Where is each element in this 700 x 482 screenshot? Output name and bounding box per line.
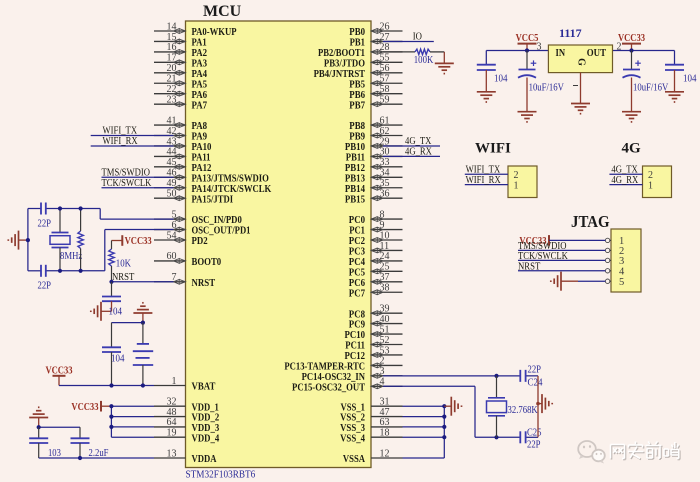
svg-text:VCC33: VCC33 [45, 365, 72, 376]
svg-text:104: 104 [111, 354, 125, 365]
svg-text:22P: 22P [38, 281, 52, 292]
svg-text:16: 16 [167, 42, 177, 53]
svg-text:22P: 22P [528, 365, 542, 376]
svg-text:PA15/JTDI: PA15/JTDI [192, 193, 234, 205]
svg-text:VSSA: VSSA [343, 453, 365, 465]
svg-text:37: 37 [380, 272, 390, 283]
svg-text:36: 36 [380, 189, 390, 200]
svg-text:18: 18 [380, 428, 390, 439]
svg-text:21: 21 [167, 74, 177, 85]
svg-text:39: 39 [380, 303, 390, 314]
svg-text:45: 45 [167, 157, 177, 168]
svg-text:4G_RX: 4G_RX [611, 174, 638, 186]
svg-text:1: 1 [514, 180, 519, 191]
svg-text:PB7: PB7 [349, 99, 365, 111]
svg-text:41: 41 [167, 115, 177, 126]
svg-text:58: 58 [380, 84, 390, 95]
svg-text:1: 1 [172, 376, 177, 387]
svg-text:55: 55 [380, 53, 390, 64]
svg-text:14: 14 [167, 21, 177, 32]
svg-text:22P: 22P [38, 218, 52, 229]
svg-text:50: 50 [167, 189, 177, 200]
svg-text:4G: 4G [622, 141, 642, 157]
svg-text:VCC5: VCC5 [516, 33, 539, 44]
svg-text:11: 11 [380, 241, 390, 252]
svg-text:60: 60 [167, 251, 177, 262]
svg-text:PC15-OSC32_OUT: PC15-OSC32_OUT [292, 381, 366, 393]
svg-text:WIFI_RX: WIFI_RX [466, 174, 501, 186]
svg-text:8: 8 [380, 209, 385, 220]
svg-text:103: 103 [48, 448, 61, 459]
svg-text:2: 2 [380, 356, 385, 367]
svg-text:5: 5 [619, 277, 624, 288]
svg-text:4G_RX: 4G_RX [405, 145, 432, 157]
svg-text:2: 2 [514, 170, 519, 181]
svg-text:JTAG: JTAG [571, 212, 610, 231]
svg-text:1: 1 [648, 180, 653, 191]
svg-text:15: 15 [167, 32, 177, 43]
svg-text:38: 38 [380, 283, 390, 294]
svg-text:TCK/SWCLK: TCK/SWCLK [102, 177, 152, 189]
svg-text:C25: C25 [527, 427, 541, 438]
svg-text:54: 54 [167, 230, 177, 241]
svg-text:19: 19 [167, 428, 177, 439]
svg-text:22: 22 [167, 84, 177, 95]
svg-text:104: 104 [494, 73, 508, 84]
svg-text:PA7: PA7 [192, 99, 208, 111]
svg-text:8MHz: 8MHz [60, 251, 83, 262]
svg-text:VDDA: VDDA [192, 453, 217, 465]
svg-text:31: 31 [380, 397, 390, 408]
svg-text:NRST: NRST [518, 260, 541, 272]
svg-text:WIFI: WIFI [475, 141, 511, 157]
svg-text:104: 104 [683, 73, 697, 84]
svg-text:VCC33: VCC33 [125, 236, 152, 247]
svg-text:10: 10 [380, 230, 390, 241]
svg-text:C24: C24 [528, 377, 544, 388]
svg-text:10K: 10K [116, 259, 132, 270]
svg-text:62: 62 [380, 126, 390, 137]
svg-text:VCC33: VCC33 [71, 402, 98, 413]
svg-text:44: 44 [167, 147, 177, 158]
svg-text:22P: 22P [527, 439, 541, 450]
svg-text:20: 20 [167, 63, 177, 74]
svg-text:34: 34 [380, 168, 390, 179]
svg-text:WIFI_RX: WIFI_RX [103, 135, 138, 147]
svg-text:12: 12 [380, 448, 390, 459]
svg-text:NRST: NRST [192, 277, 216, 289]
svg-text:STM32F103RBT6: STM32F103RBT6 [186, 469, 256, 481]
svg-text:3: 3 [619, 256, 624, 267]
svg-text:52: 52 [380, 335, 390, 346]
svg-text:1117: 1117 [559, 26, 582, 40]
svg-text:24: 24 [380, 251, 390, 262]
svg-text:23: 23 [167, 94, 177, 105]
svg-text:G: G [576, 58, 587, 66]
svg-text:35: 35 [380, 178, 390, 189]
svg-text:2.2uF: 2.2uF [89, 448, 109, 459]
svg-text:VCC33: VCC33 [618, 33, 645, 44]
svg-text:IO: IO [413, 31, 422, 43]
svg-text:32: 32 [167, 397, 177, 408]
svg-text:VDD_4: VDD_4 [192, 432, 220, 444]
svg-text:61: 61 [380, 115, 390, 126]
svg-text:IN: IN [556, 47, 566, 59]
svg-text:32.768K: 32.768K [508, 405, 539, 416]
svg-text:10uF/16V: 10uF/16V [633, 82, 669, 93]
svg-text:VSS_4: VSS_4 [340, 432, 365, 444]
svg-text:10uF/16V: 10uF/16V [529, 82, 565, 93]
svg-text:MCU: MCU [203, 3, 242, 20]
svg-text:9: 9 [380, 220, 385, 231]
svg-text:57: 57 [380, 74, 390, 85]
svg-text:BOOT0: BOOT0 [192, 256, 222, 268]
svg-text:59: 59 [380, 94, 390, 105]
svg-text:13: 13 [167, 448, 177, 459]
svg-text:PD2: PD2 [192, 235, 209, 247]
svg-text:51: 51 [380, 324, 390, 335]
svg-text:25: 25 [380, 262, 390, 273]
svg-text:26: 26 [380, 21, 390, 32]
svg-text:VBAT: VBAT [192, 381, 216, 393]
svg-text:OUT: OUT [587, 47, 607, 59]
svg-text:104: 104 [109, 307, 123, 318]
svg-text:17: 17 [167, 53, 177, 64]
svg-text:53: 53 [380, 345, 390, 356]
svg-text:4: 4 [619, 267, 625, 278]
svg-text:PB15: PB15 [345, 193, 365, 205]
svg-text:56: 56 [380, 63, 390, 74]
svg-text:PC7: PC7 [349, 287, 366, 299]
svg-text:100K: 100K [414, 55, 434, 66]
svg-text:40: 40 [380, 314, 390, 325]
svg-text:33: 33 [380, 157, 390, 168]
svg-text:2: 2 [648, 170, 653, 181]
